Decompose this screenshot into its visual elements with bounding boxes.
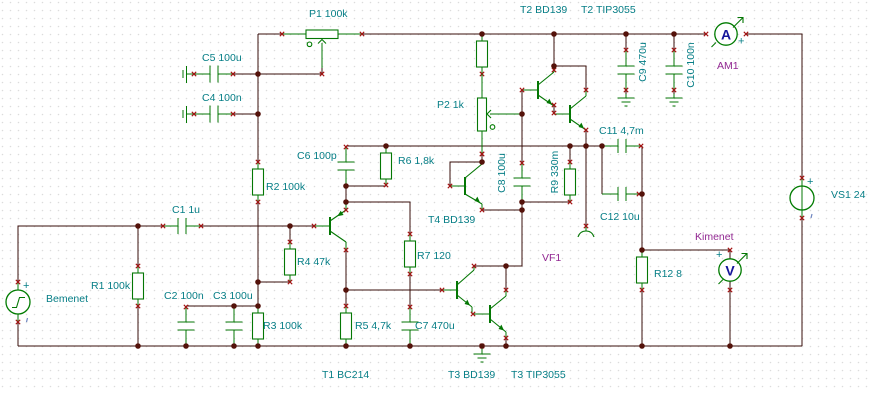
wire output node to voltmeter <box>642 250 730 259</box>
wire top rail left segment <box>258 33 282 35</box>
wire T2 collectors to rail <box>554 34 586 90</box>
voltage pin VF1 <box>578 224 594 237</box>
wire bottom ground rail <box>18 345 802 347</box>
wire C5 to node column <box>234 73 258 75</box>
wire R1 bottom stub <box>137 306 139 346</box>
svg-text:T3 BD139: T3 BD139 <box>448 369 495 381</box>
wire voltmeter bottom to rail <box>729 281 731 346</box>
wire C10 top stub <box>673 34 675 50</box>
capacitor C4 <box>183 106 235 124</box>
wire C8 node down to output devices <box>506 202 522 266</box>
svg-text:+: + <box>716 249 722 261</box>
wire top rail right segment to VS1 <box>746 34 802 178</box>
capacitor C10 <box>666 48 683 92</box>
svg-text:+: + <box>738 36 744 48</box>
resistor R7 <box>405 232 416 276</box>
wire R4 bottom to column <box>258 281 290 283</box>
wire T1 emitter node to R7 top <box>346 202 410 234</box>
resistor R8 <box>477 34 488 76</box>
junction node dots <box>135 31 733 349</box>
svg-text:VF1: VF1 <box>542 252 561 264</box>
wire P1 wiper drop <box>321 66 323 74</box>
svg-text:C3 100u: C3 100u <box>213 290 253 302</box>
wire C8 bottom to R9 bottom <box>522 201 570 203</box>
voltage source VS1 <box>790 176 814 220</box>
svg-text:R3 100k: R3 100k <box>263 320 303 332</box>
svg-text:C10 100n: C10 100n <box>685 42 697 88</box>
wire C11 C12 right column <box>641 146 643 250</box>
svg-text:R4 47k: R4 47k <box>297 256 331 268</box>
capacitor C8 <box>514 161 531 202</box>
potentiometer P2 <box>478 74 523 156</box>
wire bus to VF1 pin <box>585 146 587 226</box>
svg-text:R5 4,7k: R5 4,7k <box>355 320 392 332</box>
wire T2 darlington emitter-base link <box>553 104 555 114</box>
transistor T3 BD139 <box>440 264 476 316</box>
wire T3 BD139 collector link <box>474 265 506 267</box>
resistor R3 <box>253 306 264 346</box>
wire feedback bus y146 <box>346 145 602 147</box>
wire C4 to node column <box>234 113 258 115</box>
svg-text:C9 470u: C9 470u <box>637 42 649 82</box>
potentiometer P1 <box>280 30 364 76</box>
wire left column x258 upper <box>257 34 259 162</box>
wire R1 top stub <box>137 226 139 266</box>
svg-text:R2 100k: R2 100k <box>266 181 306 193</box>
transistor T2 BD139 <box>520 66 556 107</box>
wire R9 top stub <box>569 146 571 162</box>
svg-text:+: + <box>23 280 29 292</box>
transistor T2 TIP3055 <box>552 88 588 132</box>
wire C10 bottom to ground <box>673 90 675 94</box>
wire input left riser bottom <box>17 322 19 346</box>
capacitor C9 <box>618 48 635 92</box>
svg-text:V: V <box>725 263 735 279</box>
wire P2 bottom to T4 node <box>481 154 483 162</box>
wire R4 top stub <box>289 226 291 242</box>
wire C2 C3 top bus <box>186 305 258 307</box>
svg-text:AM1: AM1 <box>717 60 739 72</box>
svg-text:C4 100n: C4 100n <box>202 92 242 104</box>
wire T3 TIP3055 emitter stub <box>505 338 507 346</box>
capacitor C2 <box>178 305 195 346</box>
wire C6 bottom to R6 bottom <box>346 185 386 187</box>
wire T4 base loop <box>450 162 482 186</box>
svg-text:P2 1k: P2 1k <box>437 99 465 111</box>
resistor R12 <box>637 250 648 292</box>
svg-text:T2 BD139: T2 BD139 <box>520 4 567 16</box>
svg-text:T1 BC214: T1 BC214 <box>322 369 369 381</box>
svg-text:R12 8: R12 8 <box>654 268 682 280</box>
wire T1 collector to R5 <box>345 250 347 306</box>
ground under C9 <box>618 94 635 106</box>
svg-text:C6 100p: C6 100p <box>297 150 337 162</box>
capacitor C3 <box>226 306 243 346</box>
capacitor C7 <box>402 305 419 346</box>
wire top rail middle segment <box>362 33 706 35</box>
wire VS1 bottom to ground rail <box>801 218 803 346</box>
transistor T1 BC214 <box>312 204 348 252</box>
svg-text:Bemenet: Bemenet <box>46 293 88 305</box>
svg-text:R1 100k: R1 100k <box>91 280 131 292</box>
wire C1 right to T1 base <box>202 225 314 227</box>
wire bus corner to C12 left <box>601 146 603 194</box>
wire input left riser top <box>18 226 162 282</box>
resistor R9 <box>565 160 576 204</box>
wire T3 TIP3055 collector stub <box>505 266 507 290</box>
svg-text:R6 1,8k: R6 1,8k <box>398 155 435 167</box>
svg-text:P1 100k: P1 100k <box>309 8 348 20</box>
svg-text:Kimenet: Kimenet <box>695 231 734 243</box>
resistor R6 <box>381 146 392 187</box>
capacitor C11 <box>602 139 643 153</box>
capacitor C6 <box>338 145 355 186</box>
wire R7 bottom to C7 top <box>409 274 411 306</box>
svg-text:T3 TIP3055: T3 TIP3055 <box>511 369 566 381</box>
svg-text:R9 330m: R9 330m <box>549 150 561 193</box>
wire R12 bottom to rail <box>641 290 643 346</box>
wire T2 base drop <box>521 90 523 162</box>
wire T1 collector node to T3 base <box>346 289 442 291</box>
wire C9 bottom to ground <box>625 90 627 94</box>
ground under C10 <box>666 94 683 106</box>
svg-text:VS1 24: VS1 24 <box>831 189 866 201</box>
capacitor C1 <box>161 218 203 234</box>
svg-text:+: + <box>807 176 813 188</box>
svg-text:C12 10u: C12 10u <box>600 211 640 223</box>
ammeter AM1 <box>704 18 748 48</box>
resistor R5 <box>341 304 352 346</box>
voltage generator Bemenet <box>6 280 30 324</box>
wire left column x258 lower <box>257 202 259 306</box>
svg-text:C1 1u: C1 1u <box>172 204 200 216</box>
wire T2 TIP3055 emitter to bus <box>585 130 587 146</box>
svg-text:T4 BD139: T4 BD139 <box>428 214 475 226</box>
ground on rail <box>474 344 491 362</box>
transistor T3 TIP3055 <box>474 288 508 340</box>
svg-text:C2 100n: C2 100n <box>164 290 204 302</box>
svg-text:T2 TIP3055: T2 TIP3055 <box>581 4 636 16</box>
resistor R1 <box>133 264 144 308</box>
svg-text:A: A <box>721 27 731 43</box>
voltmeter on Kimenet <box>716 248 747 292</box>
resistor R4 <box>285 240 296 284</box>
svg-text:R7 120: R7 120 <box>417 250 451 262</box>
svg-text:C8 100u: C8 100u <box>496 153 508 193</box>
wire node column to P1 wiper <box>258 73 322 75</box>
wire C6 node to T1 emitter node <box>345 186 347 210</box>
capacitor C12 <box>602 187 642 201</box>
wire C9 top stub <box>625 34 627 50</box>
svg-text:C5 100u: C5 100u <box>202 52 242 64</box>
wire T4 emitter to C8 node <box>482 209 522 211</box>
transistor T4 BD139 <box>448 152 484 212</box>
capacitor C5 <box>183 66 235 84</box>
svg-text:C7 470u: C7 470u <box>415 320 455 332</box>
svg-text:C11 4,7m: C11 4,7m <box>599 125 644 137</box>
resistor R2 <box>253 160 264 204</box>
